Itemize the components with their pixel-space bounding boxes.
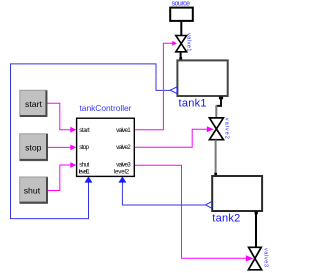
- arrowhead into controller start input: [70, 127, 76, 133]
- svg-text:level1: level1: [79, 168, 91, 175]
- svg-text:valve1: valve1: [116, 127, 131, 134]
- svg-text:valve3: valve3: [262, 248, 268, 267]
- tank T1: [177, 60, 227, 96]
- wire start button to controller (magenta): [47, 103, 72, 129]
- arrowhead into controller level1 input (blue, up): [85, 176, 93, 182]
- svg-text:level2: level2: [114, 169, 130, 176]
- button stop: [20, 134, 48, 161]
- wire level2 (blue from tank2 sensor to controller): [122, 180, 205, 205]
- svg-text:start: start: [25, 99, 42, 109]
- svg-text:stop: stop: [25, 143, 42, 153]
- wire valve2 to tank2 (gray): [215, 140, 217, 175]
- svg-text:stop: stop: [79, 144, 89, 151]
- button shut: [20, 177, 48, 203]
- tank T2: [212, 176, 262, 211]
- svg-text:valve2: valve2: [116, 144, 131, 151]
- svg-text:tankController: tankController: [80, 103, 132, 113]
- wire controller valve1 output to valve1 (magenta): [135, 43, 174, 129]
- tankController block U1: [77, 118, 135, 176]
- svg-text:shut: shut: [24, 186, 41, 196]
- valve V2: [209, 118, 223, 140]
- arrowhead into controller shut input: [70, 162, 76, 168]
- valve V1: [176, 36, 187, 52]
- wire into valve2 top (gray): [215, 105, 217, 118]
- svg-text:start: start: [79, 127, 90, 134]
- svg-text:valve3: valve3: [116, 162, 131, 169]
- tank1 inlet stub: [179, 57, 182, 60]
- arrowhead into controller stop input: [70, 145, 76, 151]
- wire controller valve3 output to valve3 (magenta): [135, 165, 248, 258]
- source block: [170, 8, 193, 21]
- tank2 outlet stub: [255, 211, 258, 214]
- wire stop button to controller (magenta): [47, 146, 71, 148]
- wire tank1 to valve2 elbow (black): [216, 99, 221, 106]
- wire controller valve2 output to valve2 (magenta): [135, 129, 209, 147]
- tank1 level sensor connector (triangle): [170, 87, 177, 94]
- tank2 level sensor connector (triangle): [206, 202, 212, 209]
- svg-text:tank2: tank2: [212, 213, 240, 225]
- wire source to valve1: [180, 22, 182, 36]
- wire valve1 to tank1: [180, 52, 182, 60]
- wire tank2 to valve3: [255, 213, 257, 248]
- tank1 outlet stub: [219, 97, 223, 100]
- svg-text:tank1: tank1: [179, 98, 207, 110]
- svg-text:valve2: valve2: [223, 118, 229, 139]
- button start: [20, 90, 47, 116]
- valve V3: [248, 247, 261, 269]
- arrowhead into valve1: [172, 41, 177, 46]
- svg-text:valve1: valve1: [186, 33, 192, 52]
- arrowhead into controller level2 input (blue, up): [118, 176, 126, 182]
- arrowhead into valve3: [246, 255, 254, 261]
- wire level1 (blue from tank1 sensor to controller): [11, 64, 171, 219]
- arrowhead into valve2: [207, 126, 214, 132]
- wire shut button to controller (magenta): [47, 165, 71, 191]
- tank2 inlet stub: [214, 173, 217, 176]
